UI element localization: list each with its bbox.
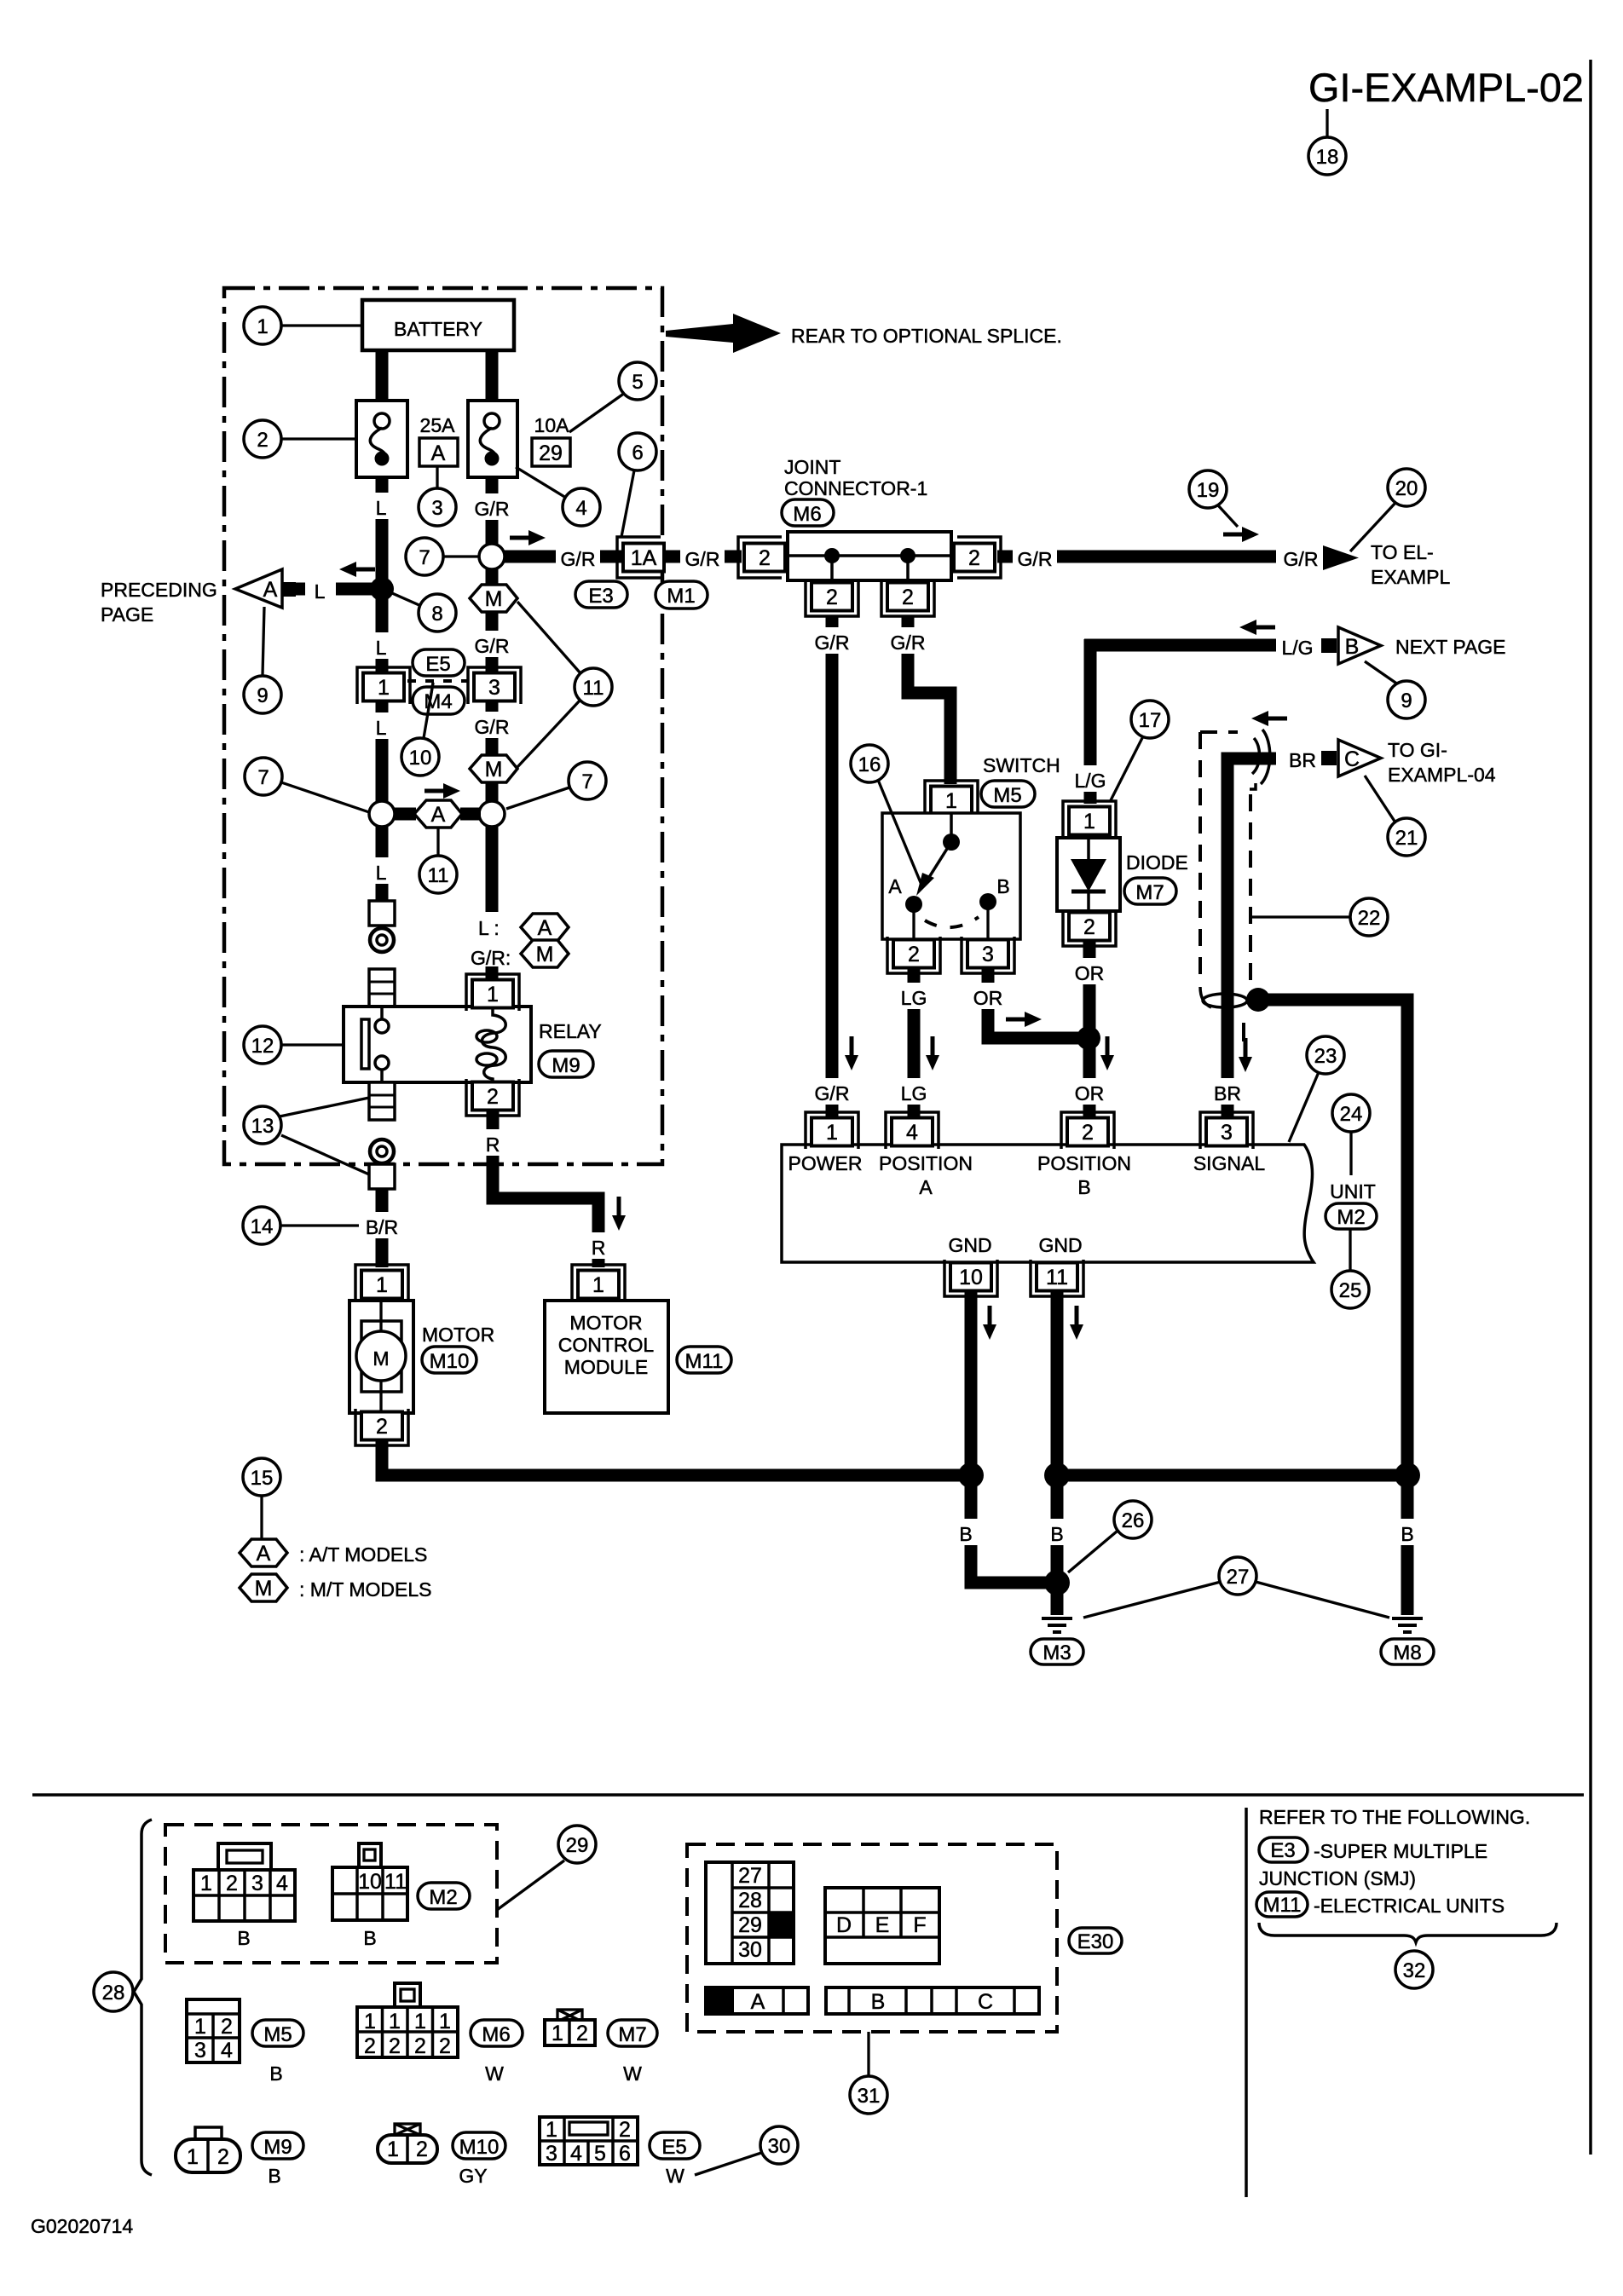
brace 32 — [1259, 1923, 1557, 1942]
svg-text:31: 31 — [858, 2085, 881, 2108]
circle 19 with arrow — [1218, 505, 1238, 527]
svg-text:29: 29 — [566, 1834, 589, 1857]
svg-text:11: 11 — [384, 1870, 407, 1894]
joint connector internal lead left — [830, 556, 834, 580]
svg-text:9: 9 — [257, 684, 268, 707]
svg-text:5: 5 — [594, 2142, 606, 2166]
svg-text:EXAMPL-04: EXAMPL-04 — [1388, 764, 1496, 786]
circle 18 — [1308, 137, 1346, 175]
circle 5 — [569, 393, 625, 432]
svg-text:B: B — [996, 875, 1009, 897]
svg-text:2: 2 — [826, 586, 838, 609]
svg-text:19: 19 — [1197, 479, 1220, 502]
svg-text:M11: M11 — [1263, 1894, 1302, 1917]
hexagon M 2nd on G/R — [470, 755, 517, 782]
wire L conn1 to square — [376, 702, 389, 901]
junction dot B to ground M3 — [1044, 1570, 1070, 1595]
svg-text:G/R: G/R — [475, 716, 510, 738]
svg-text:B: B — [959, 1523, 972, 1545]
connector E5 legend — [540, 2117, 684, 2187]
label L — [365, 712, 399, 739]
svg-text:A: A — [888, 875, 902, 897]
fuse 25A — [356, 401, 407, 477]
label G/R — [886, 627, 930, 654]
connector M2 face B — [332, 1843, 407, 1949]
svg-text:DIODE: DIODE — [1126, 851, 1188, 874]
svg-text:7: 7 — [581, 770, 592, 793]
label L — [365, 857, 399, 884]
svg-text:M: M — [536, 943, 554, 966]
svg-text:29: 29 — [738, 1913, 762, 1937]
svg-text:24: 24 — [1340, 1103, 1363, 1126]
unit pin 1 — [806, 1112, 858, 1149]
label B right — [1392, 1519, 1423, 1545]
circle 3 — [436, 466, 438, 488]
connector M5 legend — [187, 1999, 283, 2085]
down arrow LG — [926, 1036, 939, 1070]
svg-text:G/R:: G/R: — [471, 947, 511, 969]
svg-text:LG: LG — [901, 1082, 927, 1105]
svg-text:30: 30 — [768, 2135, 791, 2158]
svg-text:GI-EXAMPL-02: GI-EXAMPL-02 — [1308, 65, 1584, 110]
svg-text:POSITION: POSITION — [1037, 1152, 1131, 1174]
svg-text:30: 30 — [738, 1938, 762, 1962]
svg-text:B: B — [268, 2165, 280, 2187]
svg-text:3: 3 — [431, 497, 442, 520]
label B — [949, 1519, 979, 1545]
oval M9 legend — [252, 2132, 303, 2159]
svg-text:1: 1 — [200, 1872, 212, 1895]
circle 24 — [1349, 1132, 1352, 1175]
MCM pin 1 — [572, 1265, 625, 1301]
svg-text:G/R: G/R — [685, 548, 720, 570]
svg-text:1: 1 — [592, 1273, 604, 1297]
circle 14 — [280, 1224, 359, 1226]
svg-text:L: L — [376, 862, 387, 884]
down arrow R — [612, 1197, 626, 1231]
svg-text:26: 26 — [1122, 1509, 1145, 1532]
svg-text:1: 1 — [552, 2022, 563, 2045]
svg-text:3: 3 — [194, 2039, 206, 2062]
svg-text:1: 1 — [376, 1273, 388, 1297]
svg-text:EXAMPL: EXAMPL — [1371, 566, 1451, 588]
wire battery to fuse L — [376, 348, 389, 404]
svg-text:16: 16 — [858, 753, 881, 776]
fuse box A — [419, 438, 458, 466]
svg-text:29: 29 — [539, 441, 563, 465]
dash-dot harness box — [224, 288, 662, 1164]
UNIT box — [782, 1145, 1314, 1262]
oval E30 — [1069, 1928, 1122, 1953]
leader 27 to ground M8 — [1256, 1582, 1389, 1618]
connector M10 legend — [378, 2124, 488, 2187]
dashed line between connectors — [407, 679, 467, 683]
separator line — [32, 1793, 1584, 1797]
svg-text:B: B — [871, 1990, 886, 2014]
wire L/G horizontal to next page — [1084, 639, 1276, 652]
svg-text:2: 2 — [902, 586, 914, 609]
svg-text:M1: M1 — [667, 585, 695, 608]
svg-text:8: 8 — [431, 603, 442, 626]
svg-text:10: 10 — [959, 1266, 983, 1289]
connector M7 legend — [545, 2010, 642, 2085]
oval E3 — [575, 581, 627, 608]
label G/R — [810, 627, 854, 654]
dashed box E30 — [687, 1844, 1057, 2032]
svg-text:2: 2 — [968, 546, 980, 570]
left arrow on BR — [1251, 711, 1287, 726]
svg-text:PRECEDING: PRECEDING — [101, 579, 217, 601]
battery — [362, 300, 514, 350]
label R — [477, 1129, 508, 1156]
label R MCM — [583, 1232, 614, 1259]
circle 7 at G/R splice — [443, 555, 479, 557]
unit pin 10 — [944, 1260, 997, 1296]
svg-text:2: 2 — [1083, 915, 1095, 939]
svg-text:2: 2 — [416, 2137, 428, 2161]
A/T jumper: open circle on L — [369, 801, 395, 827]
oval M9 — [539, 1051, 593, 1077]
svg-text:GND: GND — [948, 1234, 991, 1256]
oval M7 legend — [608, 2020, 657, 2046]
svg-text:2: 2 — [364, 2034, 376, 2058]
hexagon M legend — [240, 1574, 287, 1601]
wire G/R fuse to splice 7 — [486, 474, 499, 557]
ring terminal on L — [370, 928, 394, 952]
E30 BC strip — [826, 1987, 1039, 2014]
unit pin 3 — [1200, 1112, 1253, 1149]
circle 22 — [1251, 915, 1350, 918]
svg-text:2: 2 — [619, 2118, 631, 2142]
hexagon M on G/R — [470, 585, 517, 612]
wire B motor to dot1 — [382, 1439, 971, 1475]
square connector on L — [369, 901, 395, 926]
diode pin 1 — [1063, 801, 1116, 838]
down arrow BR — [1239, 1038, 1252, 1072]
svg-text:BR: BR — [1289, 749, 1316, 771]
svg-text:2: 2 — [257, 429, 268, 452]
svg-text:D: D — [836, 1913, 852, 1937]
E30 DEF grid — [825, 1888, 939, 1964]
diode pin 2 — [1063, 909, 1116, 946]
svg-text:GND: GND — [1038, 1234, 1082, 1256]
left arrow on L — [339, 562, 375, 577]
wire LG switch to unit pin4 — [908, 969, 921, 1119]
svg-text:2: 2 — [414, 2034, 426, 2058]
switch pole — [950, 814, 953, 839]
svg-text:1A: 1A — [631, 546, 657, 570]
oval M5 — [981, 781, 1035, 807]
svg-text:10: 10 — [358, 1870, 382, 1894]
svg-text:TO GI-: TO GI- — [1388, 739, 1447, 761]
joint connector junction dot left — [824, 548, 840, 563]
circle 16 — [878, 780, 921, 885]
diode body — [1057, 838, 1120, 911]
svg-text:4: 4 — [906, 1121, 918, 1145]
svg-text:JUNCTION (SMJ): JUNCTION (SMJ) — [1259, 1867, 1416, 1889]
circle 23 — [1289, 1072, 1319, 1142]
svg-text:M6: M6 — [482, 2023, 510, 2046]
svg-text:3: 3 — [488, 676, 500, 700]
svg-text:A: A — [751, 1990, 765, 2014]
wire GND10 to dot1 — [965, 1292, 978, 1475]
leader 13 to connector — [281, 1135, 369, 1174]
svg-text:1: 1 — [194, 2015, 206, 2039]
relay pin 2 — [466, 1079, 519, 1116]
svg-text:2: 2 — [226, 1872, 238, 1895]
svg-text:21: 21 — [1395, 827, 1418, 850]
wire R relay to MCM — [493, 1110, 598, 1267]
label L under fuse — [365, 493, 399, 519]
splice dot 8 — [370, 577, 394, 601]
leader to 18 — [1326, 109, 1328, 136]
switch arm — [927, 842, 951, 881]
svg-text:M7: M7 — [618, 2023, 646, 2046]
svg-text:4: 4 — [276, 1872, 288, 1895]
jumper wire left stub — [394, 808, 416, 821]
svg-text:12: 12 — [251, 1035, 274, 1058]
leader 11 to upper M flag — [517, 602, 580, 673]
motor pin 1 — [355, 1265, 408, 1301]
svg-text:OR: OR — [1075, 962, 1105, 984]
circle 32 — [1395, 1951, 1433, 1988]
wire B/R to motor — [376, 1189, 389, 1267]
big arrow REAR TO OPTIONAL SPLICE — [666, 314, 781, 353]
big arrow TO EL-EXAMPL — [1323, 545, 1359, 570]
svg-text:M8: M8 — [1393, 1641, 1421, 1664]
wire BR to unit pin3 — [1227, 759, 1276, 1119]
circle 29 leader — [497, 1860, 564, 1910]
svg-text:M9: M9 — [263, 2136, 292, 2159]
circle 30 — [695, 2153, 761, 2175]
svg-text:G/R: G/R — [815, 1082, 850, 1105]
svg-text:CONNECTOR-1: CONNECTOR-1 — [784, 477, 927, 499]
svg-text:L: L — [376, 497, 387, 519]
M6 left pin 2 — [738, 537, 785, 578]
svg-text:1: 1 — [378, 676, 390, 700]
svg-text:2: 2 — [487, 1085, 499, 1109]
svg-text:: M/T MODELS: : M/T MODELS — [299, 1578, 432, 1601]
svg-text:M7: M7 — [1135, 881, 1164, 904]
relay contact — [361, 1019, 369, 1069]
svg-text:B: B — [1077, 1176, 1090, 1198]
svg-text:G/R: G/R — [1018, 548, 1053, 570]
svg-text:G/R: G/R — [475, 498, 510, 520]
ground M3 — [1042, 1618, 1072, 1632]
connector E5/M4 pin 3 — [468, 667, 521, 704]
circle 4 — [516, 467, 566, 498]
wire G/R splice to 1A — [505, 551, 623, 563]
junction dot GND10/B — [958, 1462, 984, 1488]
label OR — [967, 983, 1008, 1009]
svg-text:2: 2 — [1082, 1121, 1094, 1145]
svg-text:B/R: B/R — [366, 1216, 398, 1238]
wire G/R M6 bottom left to unit pin1 — [826, 617, 839, 1119]
oval E3 refer — [1259, 1837, 1308, 1862]
dashed throw arc — [925, 917, 979, 927]
svg-text:SIGNAL: SIGNAL — [1193, 1152, 1266, 1174]
svg-text:3: 3 — [546, 2142, 557, 2166]
svg-text:L :: L : — [478, 917, 500, 939]
oval M2 — [1326, 1203, 1377, 1229]
svg-text:M10: M10 — [459, 2136, 500, 2159]
svg-text:M9: M9 — [552, 1054, 580, 1077]
svg-text:B: B — [1401, 1523, 1413, 1545]
splice circle on G/R — [479, 544, 505, 569]
unit pin 2 — [1061, 1112, 1114, 1149]
svg-text:1: 1 — [546, 2118, 557, 2142]
wire dot2 to dot3 — [1057, 1469, 1407, 1482]
motor pin 2 — [355, 1409, 408, 1445]
circle 12 — [281, 1043, 344, 1046]
svg-text:MODULE: MODULE — [564, 1356, 648, 1378]
left arrow on L/G — [1239, 620, 1275, 635]
svg-text:13: 13 — [251, 1115, 274, 1138]
circle 27 — [1219, 1557, 1256, 1595]
motor circle M — [356, 1331, 406, 1381]
circle 31 — [850, 2076, 887, 2114]
connector M9 legend — [176, 2127, 281, 2187]
fuse 10A — [468, 401, 517, 477]
circle 9 — [263, 607, 264, 675]
oval M7 — [1124, 878, 1176, 904]
oval M4 — [413, 687, 465, 714]
oval M3 — [1031, 1639, 1083, 1664]
svg-text:POSITION: POSITION — [879, 1152, 973, 1174]
oval M1 — [656, 581, 708, 609]
jumper wire right stub — [460, 808, 481, 821]
svg-text:14: 14 — [251, 1215, 274, 1238]
svg-text:3: 3 — [982, 943, 994, 966]
wire G/R M6 bottom right to switch — [908, 617, 950, 784]
legend divider — [1245, 1808, 1248, 2197]
svg-text:F: F — [913, 1913, 926, 1937]
A/T jumper: open circle on G/R — [479, 801, 505, 827]
svg-text:A: A — [538, 916, 552, 940]
oval M8 — [1381, 1639, 1434, 1664]
svg-text:R: R — [486, 1134, 500, 1156]
circle 1 — [281, 324, 362, 326]
svg-text:3: 3 — [1221, 1121, 1233, 1145]
svg-text:4: 4 — [575, 497, 586, 520]
svg-text:2: 2 — [376, 1415, 388, 1439]
relay coil — [482, 1008, 505, 1082]
svg-text:G/R: G/R — [561, 548, 596, 570]
svg-text:4: 4 — [570, 2142, 582, 2166]
svg-text:1: 1 — [826, 1121, 838, 1145]
svg-text:L: L — [315, 580, 326, 603]
junction dot OR — [1077, 1026, 1100, 1050]
wire OR switch to junction — [988, 969, 1089, 1038]
svg-text:G/R: G/R — [891, 632, 926, 654]
leader 27 to ground M3 — [1083, 1582, 1221, 1618]
wire OR diode to unit pin2 — [1083, 942, 1096, 1119]
svg-text:B: B — [1345, 635, 1360, 659]
connector M6 legend — [357, 1983, 504, 2085]
ground M8 — [1392, 1618, 1423, 1632]
wire L splice to connector 1 — [376, 589, 389, 672]
oval M5 legend — [252, 2020, 303, 2046]
svg-text:SWITCH: SWITCH — [983, 754, 1060, 776]
wire battery to fuse G/R — [486, 348, 499, 404]
svg-text:10A: 10A — [534, 414, 570, 436]
M6 bottom pin 2 right — [881, 580, 934, 616]
hexagon M legend on wire — [521, 940, 569, 967]
svg-text:OR: OR — [1075, 1082, 1105, 1105]
svg-text:MOTOR: MOTOR — [422, 1324, 494, 1346]
svg-text:7: 7 — [419, 546, 430, 569]
svg-text:1: 1 — [364, 2010, 376, 2034]
svg-text:C: C — [1344, 747, 1360, 771]
wire G/R M6 to EL-EXAMPL — [997, 551, 1276, 563]
label L — [365, 632, 399, 659]
down arrow GND10 — [983, 1306, 996, 1340]
svg-text:W: W — [623, 2062, 642, 2085]
svg-text:A: A — [257, 1542, 271, 1566]
connector E5/M4 pin 1 — [357, 667, 410, 704]
down arrow GND11 — [1070, 1306, 1083, 1340]
circle 20 — [1350, 503, 1395, 551]
circle 13 — [244, 1106, 281, 1144]
svg-text:5: 5 — [632, 371, 643, 394]
switch pin 1 — [925, 781, 978, 817]
circle 8 — [392, 593, 421, 606]
switch pin 2 — [887, 937, 940, 973]
label G/R — [469, 631, 515, 657]
svg-text:M: M — [255, 1577, 273, 1601]
right arrow after splice — [510, 530, 546, 545]
wire G/R conn3 down — [486, 702, 499, 980]
relay pin 1 — [466, 974, 519, 1011]
svg-text:M: M — [373, 1347, 389, 1370]
down arrow OR — [1100, 1036, 1114, 1070]
svg-text:L/G: L/G — [1281, 637, 1313, 659]
svg-text:18: 18 — [1316, 146, 1339, 169]
oval M6 — [782, 499, 834, 526]
leader 13 to fusible link — [280, 1098, 369, 1116]
E30 fuse grid — [706, 1862, 794, 1964]
circle 7 right — [506, 787, 569, 809]
joint connector-1 body — [788, 532, 951, 580]
label G/R above unit — [810, 1078, 854, 1105]
label G/R — [680, 544, 725, 570]
svg-text:E3: E3 — [1270, 1839, 1295, 1862]
svg-text:27: 27 — [1227, 1566, 1250, 1589]
label G/R — [556, 544, 600, 570]
right arrow OR — [1006, 1012, 1042, 1027]
svg-text:REAR TO OPTIONAL SPLICE.: REAR TO OPTIONAL SPLICE. — [791, 325, 1062, 347]
circle 11 at jumper — [436, 828, 439, 856]
svg-text:L: L — [376, 637, 387, 659]
svg-text:B: B — [363, 1927, 376, 1949]
svg-text:M2: M2 — [429, 1886, 457, 1909]
circle 11 flags — [575, 668, 612, 706]
brace 28 — [134, 1820, 152, 2175]
svg-text:2: 2 — [389, 2034, 401, 2058]
circle 15 — [260, 1496, 263, 1538]
svg-text:BR: BR — [1214, 1082, 1241, 1105]
joint connector junction dot right — [900, 548, 915, 563]
svg-text:B: B — [1050, 1523, 1063, 1545]
wire G/R circle7 to connector 3 — [486, 557, 499, 672]
shield ground dot — [1246, 988, 1270, 1012]
svg-text:E3: E3 — [588, 585, 613, 608]
junction dot GND11/B — [1044, 1462, 1070, 1488]
svg-text:-SUPER MULTIPLE: -SUPER MULTIPLE — [1314, 1840, 1487, 1862]
oval M6 legend — [471, 2020, 523, 2046]
circle 17 — [1110, 736, 1143, 802]
svg-text:M3: M3 — [1043, 1641, 1071, 1664]
